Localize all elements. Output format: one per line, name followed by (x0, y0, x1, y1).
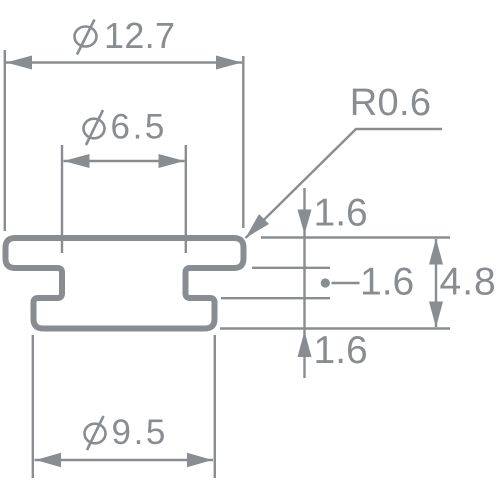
leader dash for middle 1.6 (332, 282, 360, 285)
dimension phi12.7 extension line left (4, 50, 6, 231)
dimension phi6.5 extension line left (61, 145, 63, 253)
svg-text:R0.6: R0.6 (350, 82, 431, 124)
dimension phi9.5 extension line left (32, 335, 34, 478)
label phi9.5 (85, 413, 168, 452)
arrow down to flange top (298, 210, 312, 235)
dimension chain vertical line (303, 188, 305, 378)
label phi6.5 (84, 108, 167, 147)
extension line part bottom (right) (220, 327, 450, 329)
dimension 4.8 line with arrows (429, 239, 443, 328)
extension line top of flange (right) (261, 236, 450, 238)
svg-text:6.5: 6.5 (111, 108, 167, 147)
dimension phi12.7 line with arrows (6, 56, 242, 70)
dimension phi6.5 line with arrows (64, 154, 185, 168)
svg-text:9.5: 9.5 (112, 413, 168, 452)
svg-text:1.6: 1.6 (314, 329, 368, 372)
extension line flange bottom (right) (252, 267, 330, 269)
svg-text:1.6: 1.6 (360, 261, 414, 304)
extension line neck bottom (right) (221, 297, 330, 299)
dimension phi12.7 extension line right (242, 56, 244, 228)
leader dot for middle 1.6 (321, 278, 330, 287)
dimension phi9.5 extension line right (214, 335, 216, 478)
part profile (spool cross-section outline) (6, 238, 244, 329)
svg-text:4.8: 4.8 (440, 261, 497, 304)
leader R0.6 (246, 82, 443, 238)
svg-text:1.6: 1.6 (314, 192, 368, 235)
dimension phi9.5 line with arrows (35, 453, 214, 467)
dimension phi6.5 extension line right (185, 145, 187, 253)
svg-text:12.7: 12.7 (104, 15, 175, 56)
label phi12.7 (75, 15, 176, 56)
arrow up to part bottom (298, 331, 312, 357)
